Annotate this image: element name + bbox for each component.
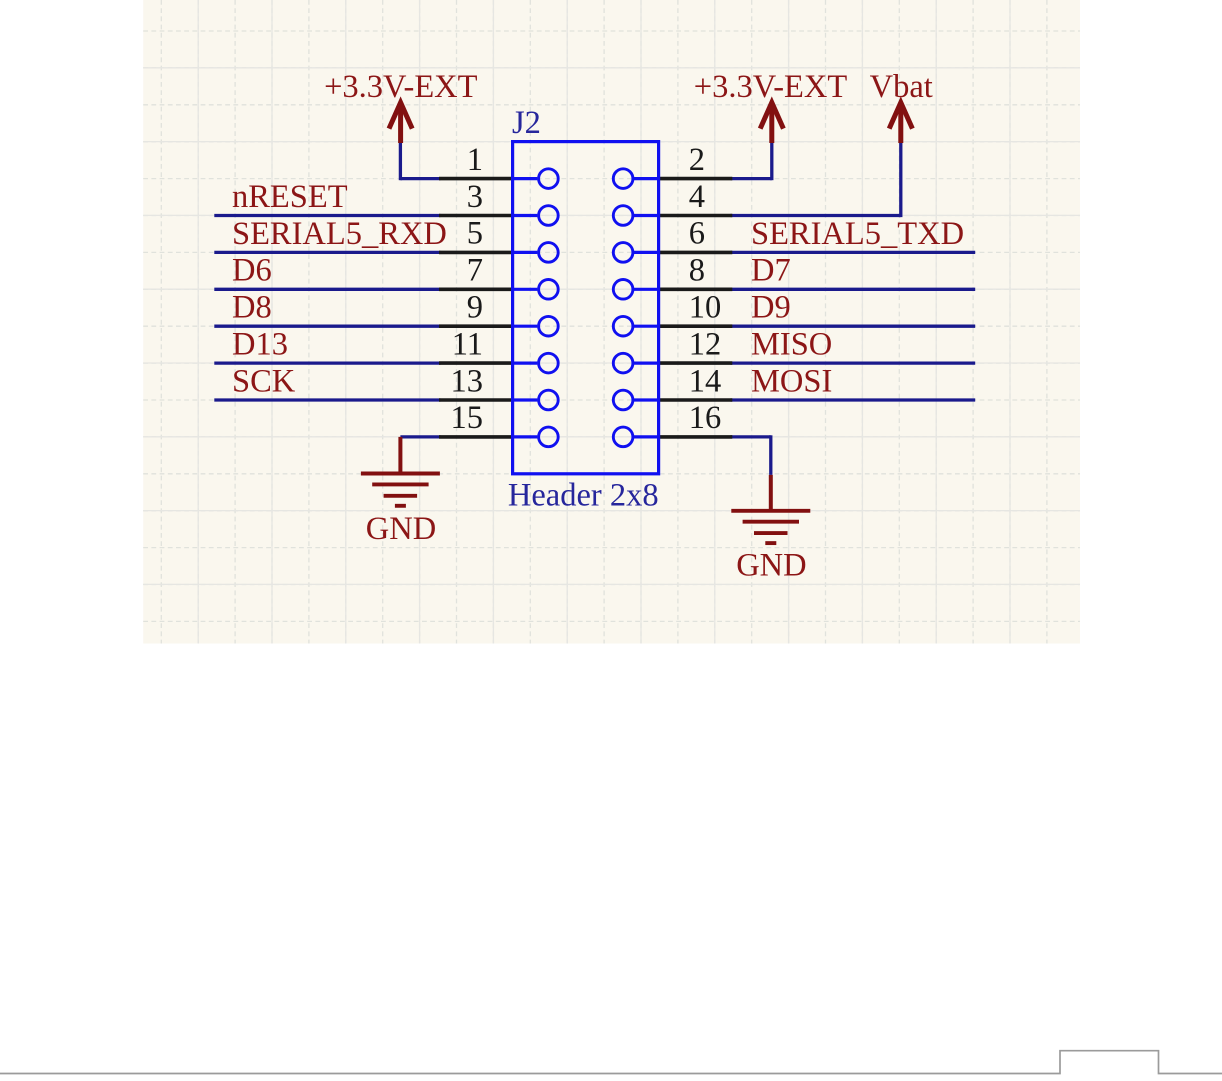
svg-text:15: 15: [451, 400, 484, 436]
svg-text:+3.3V-EXT: +3.3V-EXT: [694, 69, 848, 105]
svg-text:D6: D6: [232, 253, 272, 289]
svg-text:SERIAL5_TXD: SERIAL5_TXD: [751, 216, 964, 252]
svg-text:SCK: SCK: [232, 363, 296, 399]
svg-text:16: 16: [689, 400, 722, 436]
svg-text:3: 3: [467, 179, 483, 215]
svg-text:+3.3V-EXT: +3.3V-EXT: [324, 69, 478, 105]
svg-text:MISO: MISO: [751, 327, 832, 363]
svg-text:11: 11: [452, 326, 483, 362]
svg-text:13: 13: [451, 363, 484, 399]
svg-text:GND: GND: [366, 511, 436, 547]
svg-text:9: 9: [467, 290, 483, 326]
svg-text:Vbat: Vbat: [870, 69, 933, 105]
svg-text:SERIAL5_RXD: SERIAL5_RXD: [232, 216, 447, 252]
svg-text:D8: D8: [232, 290, 272, 326]
svg-text:Header 2x8: Header 2x8: [508, 478, 659, 514]
svg-text:4: 4: [689, 179, 705, 215]
svg-text:D9: D9: [751, 290, 791, 326]
svg-text:7: 7: [467, 253, 483, 289]
svg-text:5: 5: [467, 216, 483, 252]
svg-text:2: 2: [689, 142, 705, 178]
svg-text:6: 6: [689, 216, 705, 252]
svg-text:14: 14: [689, 363, 722, 399]
svg-text:MOSI: MOSI: [751, 363, 832, 399]
svg-text:D13: D13: [232, 327, 288, 363]
svg-text:nRESET: nRESET: [232, 179, 348, 215]
svg-text:D7: D7: [751, 253, 791, 289]
svg-text:1: 1: [467, 142, 483, 178]
svg-text:8: 8: [689, 253, 705, 289]
svg-text:12: 12: [689, 326, 722, 362]
svg-text:10: 10: [689, 290, 722, 326]
svg-text:J2: J2: [512, 105, 541, 141]
svg-text:GND: GND: [736, 548, 806, 584]
